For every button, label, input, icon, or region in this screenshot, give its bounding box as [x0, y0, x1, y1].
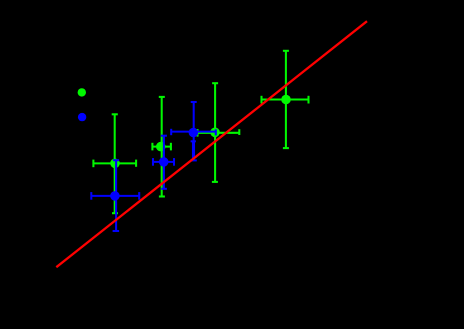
- legend marker (green series): [78, 88, 86, 96]
- blue data point B2 with x/y error bars: [153, 136, 174, 189]
- green data point G4 with x/y error bars: [262, 51, 309, 148]
- green data point G1 with x/y error bars: [93, 114, 136, 213]
- blue data point B3 with x/y error bars: [171, 102, 216, 160]
- green data point G2 with x/y error bars: [152, 97, 171, 197]
- red fit line: [56, 21, 367, 267]
- legend marker (blue series): [78, 113, 86, 121]
- green data point G3 with x/y error bars: [198, 83, 240, 182]
- blue data point B1 with x/y error bars: [91, 160, 139, 231]
